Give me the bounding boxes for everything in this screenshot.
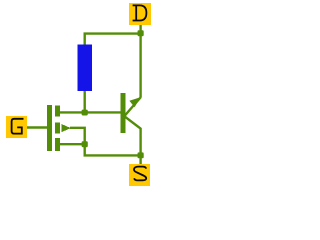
wire: S row horizontal bbox=[84, 154, 142, 156]
resistor R (blue body) bbox=[77, 45, 92, 92]
wire: base row (MOSFET drain stub to BJT base) bbox=[60, 111, 121, 113]
terminal D label bbox=[133, 5, 147, 21]
transistor Q1 MOSFET channel top segment (drain) bbox=[55, 106, 60, 117]
transistor Q2 BJT emitter diagonal (to D) bbox=[124, 97, 141, 116]
wire: resistor bottom down to base-row junction bbox=[83, 90, 85, 112]
transistor Q1 MOSFET channel middle segment (bulk) bbox=[55, 123, 60, 134]
junction dot at source row bbox=[82, 141, 88, 147]
wire: MOSFET bulk arrow row bend down bbox=[70, 127, 85, 145]
wire: gate wire from G box to gate bar bbox=[26, 126, 48, 128]
junction dot at D node bbox=[138, 30, 144, 36]
transistor Q1 MOSFET bulk arrow bbox=[61, 124, 70, 132]
junction dot at base row / resistor bbox=[82, 110, 88, 116]
wire: S row junction down to S box pin bbox=[139, 155, 141, 164]
wire: bend down to resistor top bbox=[83, 34, 85, 46]
terminal G box bbox=[6, 116, 27, 138]
terminal S label bbox=[134, 167, 146, 181]
wire: BJT collector vertical down to S row bbox=[139, 128, 141, 156]
transistor Q2 BJT emitter arrow bbox=[129, 97, 140, 107]
terminal S box bbox=[129, 164, 150, 186]
wire: top row from resistor bend to D junction bbox=[84, 32, 142, 34]
transistor Q1 MOSFET channel bottom segment (source) bbox=[55, 138, 60, 151]
wire: down from source junction to S row bbox=[83, 144, 85, 155]
wire: D pin to junction bbox=[139, 25, 141, 32]
transistor Q1 MOSFET gate bar bbox=[47, 105, 52, 151]
terminal D box bbox=[129, 3, 151, 25]
terminal G label bbox=[12, 119, 23, 134]
transistor Q2 BJT collector diagonal (to S) bbox=[124, 116, 141, 129]
wire: D vertical down to BJT emitter bbox=[139, 34, 141, 98]
junction dot at S node bbox=[138, 152, 144, 158]
transistor Q2 BJT base bar bbox=[120, 93, 125, 133]
wire: MOSFET source stub row bbox=[60, 143, 85, 145]
